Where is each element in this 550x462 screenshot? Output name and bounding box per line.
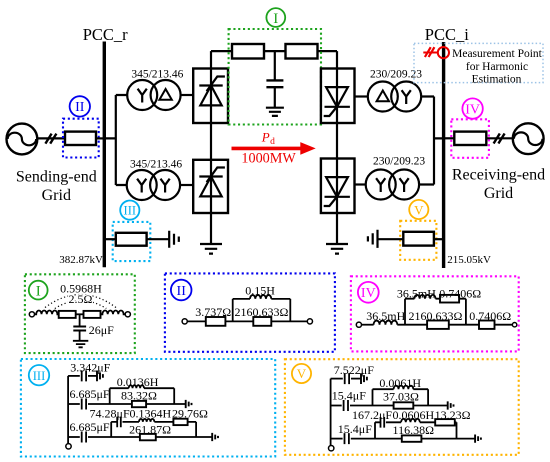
AC source receiving-end G2 bbox=[513, 123, 544, 154]
ground row1 box V bbox=[361, 373, 367, 384]
capacitor 6.685uF row2 bbox=[82, 399, 86, 410]
svg-text:345/213.46: 345/213.46 bbox=[131, 68, 183, 80]
svg-text:d: d bbox=[270, 137, 275, 147]
row2 wire to parallel box III bbox=[88, 403, 132, 405]
wire U1 top to DC line bbox=[210, 51, 212, 68]
terminal left box IV bbox=[356, 322, 361, 327]
svg-text:116.38Ω: 116.38Ω bbox=[393, 423, 435, 437]
measurement point symbol (red) bbox=[423, 47, 449, 58]
label circle I bbox=[266, 8, 285, 27]
impedance Z II (equivalent impedance rectangle) bbox=[65, 132, 96, 145]
wire G1 to impedance II bbox=[37, 137, 65, 139]
svg-text:IV: IV bbox=[361, 286, 376, 301]
ground row1 box III bbox=[97, 371, 103, 382]
svg-text:15.4μF: 15.4μF bbox=[338, 422, 372, 436]
transformer T3 230/209.23 (D-Y) bbox=[368, 82, 421, 112]
label circle V (detail) bbox=[292, 364, 311, 383]
capacitor 74.28uF top branch bbox=[117, 417, 121, 428]
row3 wire to parallel box V bbox=[351, 438, 402, 440]
resistor 2160.633ohm box II bbox=[253, 317, 271, 326]
capacitor 6.685uF row3 bbox=[82, 432, 86, 443]
wire between U1 and U2 bbox=[210, 123, 212, 160]
resistor 37.03ohm bbox=[394, 402, 414, 408]
ground row2 box V bbox=[448, 401, 454, 409]
svg-text:6.685μF: 6.685μF bbox=[70, 387, 110, 401]
DC smoothing reactor L2 bbox=[286, 44, 318, 59]
row1 wire box V bbox=[331, 378, 343, 380]
wire filter III to ground bbox=[147, 238, 169, 240]
dashed box V (filter detail) bbox=[285, 359, 519, 455]
DC smoothing reactor L1 bbox=[232, 44, 264, 59]
capacitor 7.522uF bbox=[345, 373, 349, 384]
wire between U3 and U4 bbox=[336, 123, 338, 159]
svg-text:3.342μF: 3.342μF bbox=[70, 360, 110, 374]
terminal left box I bbox=[29, 312, 34, 317]
dashed box IV bbox=[451, 119, 489, 158]
capacitor 15.4uF row3 bbox=[345, 433, 349, 444]
ground below C1 bbox=[266, 108, 284, 116]
vertical feeder line box III bbox=[67, 376, 69, 444]
row1 wire box III bbox=[68, 375, 80, 377]
svg-text:3.737Ω: 3.737Ω bbox=[195, 305, 231, 319]
label circle IV bbox=[462, 98, 482, 118]
converter U2 rectifier bottom-left bbox=[193, 160, 228, 213]
impedance Z IV (equivalent impedance rectangle) bbox=[454, 132, 486, 145]
row2 wire to ground box III bbox=[146, 403, 185, 405]
wire resistor to parallel node box II bbox=[225, 320, 253, 322]
parallel risers row2 box III bbox=[110, 388, 175, 404]
svg-text:74.28μF: 74.28μF bbox=[90, 406, 130, 420]
wire impedance IV to G2 bbox=[486, 137, 513, 139]
inductor 36.5mH series bbox=[374, 321, 398, 325]
measurement point text box bbox=[414, 43, 543, 82]
resistor R left box I bbox=[59, 311, 76, 318]
capacitor 3.342uF bbox=[82, 370, 86, 381]
vertical feeder line box V bbox=[330, 379, 332, 446]
svg-text:V: V bbox=[297, 366, 307, 381]
power flow arrow Pd bbox=[232, 142, 316, 155]
filter III impedance rectangle bbox=[116, 233, 147, 246]
svg-text:83.32Ω: 83.32Ω bbox=[121, 389, 157, 403]
wire inductor to parallel node box IV bbox=[397, 324, 427, 326]
svg-text:36.5mH: 36.5mH bbox=[366, 309, 405, 323]
dashed box II bbox=[63, 119, 99, 158]
svg-text:0.7406Ω: 0.7406Ω bbox=[439, 287, 481, 301]
wire filter V to ground bbox=[378, 238, 404, 240]
resistor 13.23ohm top branch bbox=[435, 419, 455, 425]
resistor R right box I bbox=[84, 311, 101, 318]
wire to right terminal box II bbox=[271, 320, 307, 322]
svg-text:2.5Ω: 2.5Ω bbox=[69, 292, 93, 306]
line break symbol left bbox=[45, 134, 56, 144]
svg-text:6.685μF: 6.685μF bbox=[70, 420, 110, 434]
wire U3 to transformer T3 bbox=[355, 95, 369, 97]
dashed box IV (filter detail) bbox=[351, 276, 519, 351]
label circle II bbox=[70, 96, 90, 116]
capacitor 167.2uF top branch bbox=[381, 417, 385, 428]
converter U4 inverter bottom-right bbox=[321, 159, 355, 214]
dashed box I (filter detail) bbox=[25, 274, 135, 353]
transformer T4 230/209.23 (Y-Y) bbox=[366, 170, 419, 200]
wire U2 to ground bbox=[210, 213, 212, 244]
svg-text:2160.633Ω: 2160.633Ω bbox=[409, 309, 463, 323]
converter U1 rectifier top-left bbox=[193, 69, 228, 124]
svg-text:PCC_r: PCC_r bbox=[83, 25, 128, 44]
label Measurement Point for Harmonic Estimation bbox=[452, 48, 543, 85]
filter V impedance rectangle bbox=[403, 232, 434, 246]
svg-text:0.15H: 0.15H bbox=[245, 284, 275, 298]
inductor 0.0606H top branch bbox=[401, 419, 420, 422]
dashed box V (top) bbox=[400, 221, 436, 260]
wire parallel to right resistor box IV bbox=[449, 324, 479, 326]
svg-text:P: P bbox=[261, 130, 270, 145]
resistor 29.76ohm top branch bbox=[173, 419, 187, 425]
svg-text:230/209.23: 230/209.23 bbox=[373, 155, 425, 167]
DC line right segment bbox=[318, 51, 338, 68]
parallel branch risers box IV bbox=[405, 299, 466, 325]
dashed box III (top) bbox=[113, 222, 151, 261]
wire bus to impedance IV bbox=[444, 137, 454, 139]
terminal bottom box V bbox=[329, 446, 334, 451]
inductor L right box I bbox=[101, 310, 126, 314]
svg-text:36.5mH: 36.5mH bbox=[397, 287, 436, 301]
svg-text:V: V bbox=[414, 202, 424, 217]
wire bus to transformer branch node bbox=[104, 95, 127, 185]
resistor 83.32ohm bbox=[132, 401, 146, 407]
svg-text:for Harmonic: for Harmonic bbox=[466, 61, 528, 73]
inductor 0.15H bbox=[250, 295, 271, 299]
svg-text:IV: IV bbox=[465, 102, 480, 117]
wire to resistor box II bbox=[187, 320, 206, 322]
svg-text:15.4μF: 15.4μF bbox=[332, 389, 366, 403]
wire T2 to converter U2 bbox=[180, 184, 194, 186]
svg-text:0.7406Ω: 0.7406Ω bbox=[469, 309, 511, 323]
svg-text:II: II bbox=[177, 284, 187, 299]
row2 wire box III bbox=[68, 403, 80, 405]
svg-text:261.87Ω: 261.87Ω bbox=[129, 422, 171, 436]
row2 wire box V bbox=[331, 405, 342, 407]
ground right of filter III bbox=[169, 231, 179, 248]
svg-text:0.0061H: 0.0061H bbox=[379, 376, 421, 390]
inductor 0.1364H top branch bbox=[139, 419, 154, 422]
wire DC mid node bbox=[264, 50, 286, 52]
row3 wire to ground box V bbox=[421, 438, 474, 440]
wire T1 to converter U1 bbox=[180, 94, 193, 96]
svg-text:III: III bbox=[124, 204, 137, 218]
dotted arc 2.5ohm bbox=[55, 301, 107, 309]
wire middle node box I bbox=[76, 313, 84, 315]
ground row3 box V bbox=[475, 435, 481, 443]
label circle I (detail) bbox=[29, 281, 48, 300]
bus PCC_r bbox=[103, 42, 106, 268]
row3 wire box III bbox=[68, 436, 80, 438]
transformer T1 345/213.46 (Y-D) bbox=[127, 80, 180, 110]
bus PCC_i bbox=[442, 42, 445, 268]
AC source sending-end G1 bbox=[7, 124, 38, 155]
terminal bottom box III bbox=[66, 444, 71, 449]
DC capacitor C1 bbox=[266, 51, 283, 107]
row2 wire to parallel box V bbox=[350, 405, 394, 407]
svg-text:382.87kV: 382.87kV bbox=[59, 254, 103, 266]
svg-text:345/213.46: 345/213.46 bbox=[130, 158, 182, 170]
svg-text:Sending-end: Sending-end bbox=[16, 169, 97, 186]
label circle IV (detail) bbox=[358, 282, 379, 303]
svg-text:29.76Ω: 29.76Ω bbox=[172, 406, 208, 420]
ground row2 box III bbox=[186, 400, 192, 408]
terminal left box II bbox=[182, 319, 187, 324]
svg-text:I: I bbox=[273, 11, 278, 27]
transformer T2 345/213.46 (Y-Y) bbox=[127, 170, 180, 200]
ground box I bbox=[73, 341, 88, 348]
wire to right terminal box IV bbox=[495, 324, 513, 326]
label circle V (top) bbox=[409, 200, 428, 219]
converter U3 inverter top-right bbox=[321, 69, 355, 124]
capacitor 15.4uF row2 bbox=[344, 400, 348, 411]
row2 wire to ground box V bbox=[413, 405, 447, 407]
svg-text:III: III bbox=[33, 369, 46, 383]
DC line left segment bbox=[211, 50, 232, 52]
svg-text:37.03Ω: 37.03Ω bbox=[383, 389, 419, 403]
label circle III (top) bbox=[120, 201, 139, 220]
dashed box I bbox=[229, 29, 321, 125]
terminal right box II bbox=[307, 319, 312, 324]
parallel branch risers box II bbox=[233, 299, 291, 322]
parallel risers row3 box V bbox=[375, 422, 457, 438]
dotted arc 0.5968H bbox=[45, 295, 116, 308]
resistor 116.38ohm bbox=[402, 435, 422, 441]
inductor 36.5mH top branch bbox=[414, 295, 435, 299]
wire bus to filter V bbox=[434, 238, 443, 240]
capacitor C 26uF box I bbox=[73, 314, 86, 340]
row3 wire to ground box III bbox=[156, 436, 212, 438]
ground below U4 bbox=[326, 244, 348, 254]
wire U4 to ground bbox=[336, 213, 338, 244]
label circle II (detail) bbox=[171, 280, 192, 301]
ground left of filter V bbox=[368, 230, 378, 248]
row1 wire to ground box V bbox=[351, 378, 361, 380]
row3 wire box V bbox=[331, 438, 343, 440]
inductor L left box I bbox=[35, 310, 59, 314]
svg-text:0.0136H: 0.0136H bbox=[117, 375, 159, 389]
wire U4 to transformer T4 bbox=[355, 183, 367, 185]
wire to inductor box IV bbox=[362, 324, 374, 326]
svg-text:Measurement Point: Measurement Point bbox=[452, 48, 543, 60]
svg-text:Grid: Grid bbox=[484, 185, 513, 202]
resistor 0.7406ohm top branch bbox=[440, 295, 459, 303]
terminal right box IV bbox=[512, 323, 516, 327]
dashed box III (filter detail) bbox=[21, 359, 275, 457]
svg-text:0.1364H: 0.1364H bbox=[129, 406, 171, 420]
row3 wire to parallel box III bbox=[88, 436, 140, 438]
dashed box II (filter detail) bbox=[165, 273, 335, 351]
wire impedance II to bus PCC_r bbox=[96, 137, 104, 139]
line break symbol right bbox=[494, 134, 505, 144]
resistor 3.737ohm bbox=[206, 317, 226, 326]
svg-text:0.0606H: 0.0606H bbox=[392, 408, 434, 422]
wire bus to filter III bbox=[104, 238, 116, 240]
svg-text:2160.633Ω: 2160.633Ω bbox=[235, 305, 289, 319]
svg-text:26μF: 26μF bbox=[89, 323, 114, 337]
svg-text:13.23Ω: 13.23Ω bbox=[435, 408, 471, 422]
wire transformers to bus PCC_i bbox=[419, 97, 443, 185]
label circle III (detail) bbox=[29, 365, 49, 385]
row1 wire to ground box III bbox=[88, 375, 97, 377]
resistor 2160.633ohm box IV bbox=[427, 321, 449, 329]
svg-text:Grid: Grid bbox=[42, 187, 71, 204]
resistor 0.7406ohm series right bbox=[479, 321, 495, 329]
svg-text:Receiving-end: Receiving-end bbox=[452, 166, 545, 183]
svg-text:7.522μF: 7.522μF bbox=[334, 363, 374, 377]
ground row3 box III bbox=[212, 433, 218, 441]
svg-text:215.05kV: 215.05kV bbox=[447, 254, 491, 266]
resistor 261.87ohm bbox=[140, 434, 156, 440]
ground below U2 bbox=[200, 244, 222, 254]
inductor 0.0061H bbox=[394, 386, 414, 390]
svg-text:I: I bbox=[36, 283, 41, 299]
svg-text:Estimation: Estimation bbox=[472, 74, 522, 86]
parallel risers row2 box V bbox=[373, 389, 429, 405]
svg-text:167.2μF: 167.2μF bbox=[352, 408, 392, 422]
inductor 0.0136H bbox=[129, 385, 144, 388]
terminal right box I bbox=[125, 312, 130, 317]
svg-text:II: II bbox=[75, 100, 85, 115]
svg-text:1000MW: 1000MW bbox=[241, 150, 296, 166]
svg-text:PCC_i: PCC_i bbox=[425, 25, 469, 44]
parallel risers row3 box III bbox=[111, 422, 196, 437]
